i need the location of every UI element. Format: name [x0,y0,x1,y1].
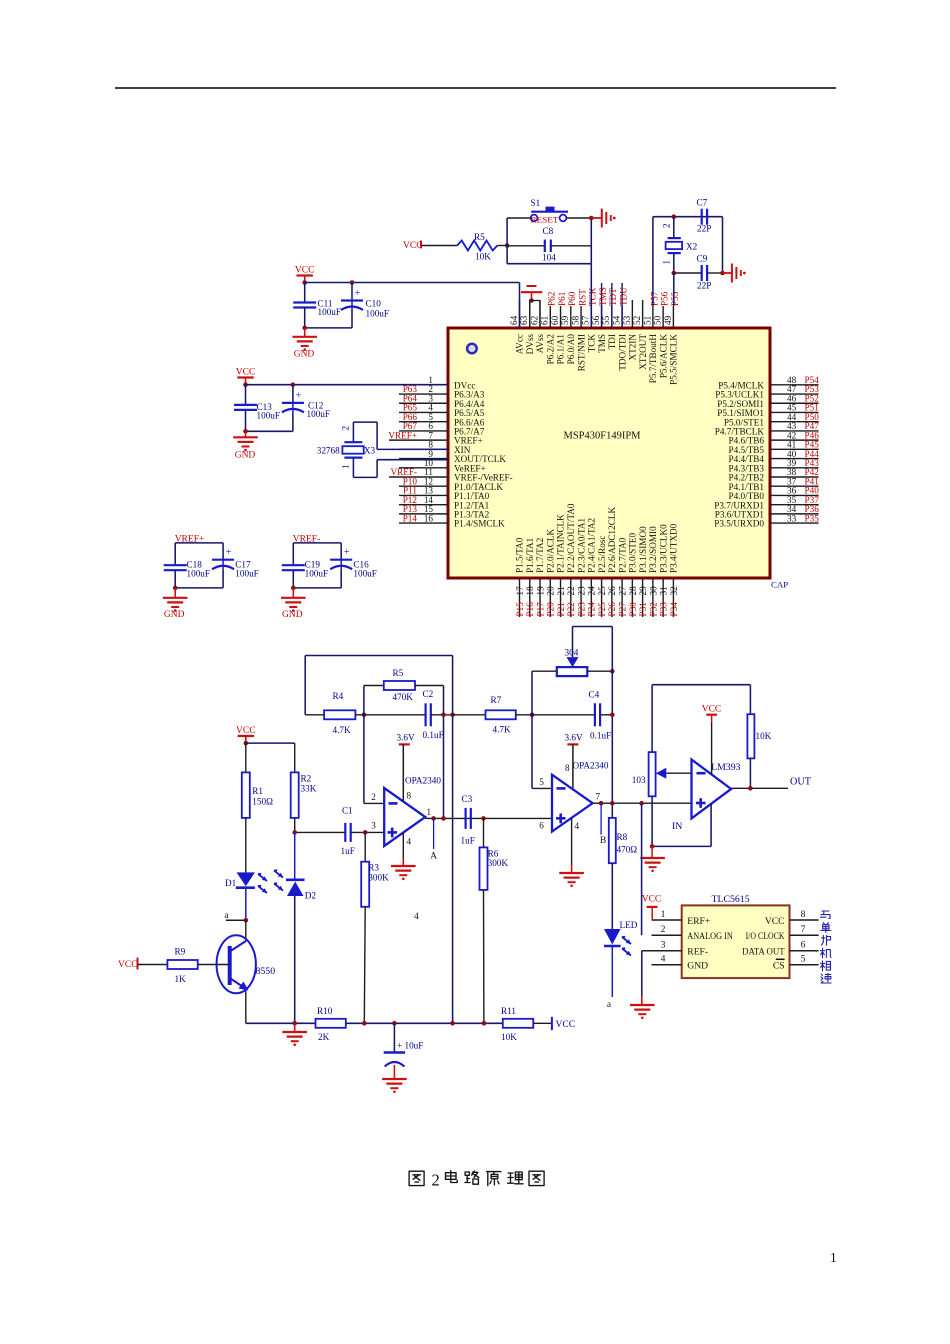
svg-text:DATA OUT: DATA OUT [742,947,785,958]
svg-text:P6.0/A0: P6.0/A0 [566,334,576,365]
svg-text:P3.5/URXD0: P3.5/URXD0 [714,519,764,529]
svg-text:CAP: CAP [771,580,788,590]
svg-text:+: + [226,547,232,558]
svg-text:DVss: DVss [525,334,535,355]
svg-text:P35: P35 [805,513,820,523]
svg-text:0.1uF: 0.1uF [590,731,611,741]
svg-text:P23: P23 [576,602,586,617]
svg-text:VCC: VCC [403,241,423,251]
svg-text:100uF: 100uF [187,569,211,579]
svg-text:P26: P26 [607,602,617,617]
svg-text:100uF: 100uF [305,569,329,579]
svg-text:P1.6/TA1: P1.6/TA1 [525,537,535,573]
svg-text:P20: P20 [546,602,556,617]
svg-text:P3.2/SOMI0: P3.2/SOMI0 [648,526,658,573]
svg-text:30: 30 [648,586,658,596]
svg-text:20: 20 [546,586,556,596]
svg-text:+ 10uF: + 10uF [397,1041,423,1051]
svg-text:100uF: 100uF [307,409,331,419]
svg-text:TMS: TMS [598,287,608,306]
svg-text:54: 54 [612,315,622,325]
svg-text:2: 2 [662,223,672,228]
svg-text:57: 57 [581,315,591,325]
svg-text:8: 8 [565,763,570,773]
svg-text:10K: 10K [756,731,772,741]
svg-text:P15: P15 [515,602,525,617]
svg-text:P5.5/SMCLK: P5.5/SMCLK [669,334,679,385]
svg-text:LED: LED [620,920,638,930]
svg-text:P55: P55 [670,291,680,306]
svg-text:LM393: LM393 [711,762,740,773]
svg-text:R11: R11 [501,1006,516,1016]
svg-text:31: 31 [659,586,669,596]
svg-text:33K: 33K [301,784,317,794]
svg-text:P34: P34 [669,602,679,617]
svg-text:16: 16 [424,513,434,523]
svg-text:P16: P16 [525,602,535,617]
svg-text:P1.5/TA0: P1.5/TA0 [515,537,525,573]
svg-text:P57: P57 [649,291,659,306]
svg-text:51: 51 [642,315,652,325]
svg-text:21: 21 [556,586,566,596]
svg-text:OPA2340: OPA2340 [573,760,609,770]
svg-text:P2.1/TAINCLK: P2.1/TAINCLK [556,514,566,573]
svg-text:27: 27 [618,586,628,596]
svg-text:P32: P32 [648,602,658,617]
svg-text:TDI: TDI [607,334,617,349]
svg-text:P31: P31 [638,602,648,617]
svg-text:470K: 470K [393,692,414,702]
svg-text:AVcc: AVcc [515,334,525,354]
svg-text:D1: D1 [225,878,237,888]
svg-text:TDU: TDU [619,287,629,306]
svg-text:1: 1 [341,464,351,469]
svg-text:OUT: OUT [790,777,812,788]
svg-text:1: 1 [662,260,672,265]
svg-text:P5.7/TBoutH: P5.7/TBoutH [648,334,658,384]
svg-text:50: 50 [653,315,663,325]
svg-text:GND: GND [687,961,708,972]
svg-text:1: 1 [427,807,432,817]
svg-text:P2.4/CA1/TA2: P2.4/CA1/TA2 [587,517,597,573]
svg-text:RESET: RESET [531,215,559,224]
svg-text:P6.1/A1: P6.1/A1 [556,334,566,365]
svg-text:P3.1/SIMO0: P3.1/SIMO0 [638,526,648,573]
svg-text:18: 18 [525,586,535,596]
svg-text:304: 304 [565,647,579,657]
svg-text:GND: GND [235,451,256,461]
svg-text:P2.5/Rosc: P2.5/Rosc [597,535,607,573]
svg-text:C9: C9 [697,254,708,264]
svg-text:AVss: AVss [535,334,545,354]
svg-text:2: 2 [371,792,376,802]
svg-text:17: 17 [515,586,525,596]
svg-text:R6: R6 [488,849,499,859]
svg-text:P17: P17 [535,602,545,617]
svg-text:49: 49 [663,315,673,325]
svg-text:P3.0/STE0: P3.0/STE0 [628,533,638,573]
svg-text:P2.0/ACLK: P2.0/ACLK [545,528,555,573]
svg-text:4: 4 [407,837,412,847]
svg-text:TLC5615: TLC5615 [712,894,750,905]
svg-text:X3: X3 [364,445,376,455]
svg-text:P2.7/TA0: P2.7/TA0 [617,537,627,573]
svg-text:4.7K: 4.7K [493,725,511,735]
svg-text:TMS: TMS [597,334,607,353]
svg-text:58: 58 [570,315,580,325]
svg-text:S1: S1 [531,198,541,208]
svg-text:XT2IN: XT2IN [628,334,638,361]
svg-text:P3.3/UCLK0: P3.3/UCLK0 [658,524,668,573]
svg-text:+: + [344,547,350,558]
svg-text:RST/NMI: RST/NMI [576,334,586,371]
svg-text:R3: R3 [368,863,379,873]
svg-text:R10: R10 [317,1006,333,1016]
svg-text:VCC: VCC [236,368,256,378]
svg-text:C7: C7 [697,198,708,208]
svg-text:2: 2 [432,1171,440,1190]
svg-text:P22: P22 [566,602,576,617]
svg-text:26: 26 [607,586,617,596]
svg-text:28: 28 [628,586,638,596]
svg-text:22P: 22P [697,281,711,291]
svg-text:4: 4 [575,821,580,831]
svg-text:10K: 10K [501,1032,517,1042]
svg-text:+: + [355,288,361,299]
svg-text:3: 3 [371,821,376,831]
svg-text:4: 4 [414,912,419,922]
svg-text:19: 19 [535,586,545,596]
svg-text:25: 25 [597,586,607,596]
svg-text:104: 104 [542,253,556,263]
svg-text:7: 7 [596,791,601,801]
svg-text:R5: R5 [474,232,485,242]
svg-text:53: 53 [622,315,632,325]
svg-text:TDT: TDT [608,288,618,306]
svg-text:5: 5 [801,954,806,965]
svg-text:VCC: VCC [118,960,138,970]
svg-text:P1.4/SMCLK: P1.4/SMCLK [454,519,505,529]
svg-text:I/O CLOCK: I/O CLOCK [746,931,785,942]
svg-text:22: 22 [566,586,576,596]
svg-text:P3.4/UTXD0: P3.4/UTXD0 [669,523,679,573]
svg-text:P2.2/CAOUT/TA0: P2.2/CAOUT/TA0 [566,503,576,573]
svg-text:63: 63 [519,315,529,325]
svg-text:100uF: 100uF [318,307,342,317]
svg-text:10K: 10K [475,252,491,262]
svg-text:R7: R7 [491,695,502,705]
svg-text:8550: 8550 [256,966,276,977]
svg-text:P2.3/CA0/TA1: P2.3/CA0/TA1 [576,517,586,573]
svg-text:5: 5 [539,777,544,787]
svg-text:1uF: 1uF [461,836,475,846]
svg-text:P60: P60 [567,291,577,306]
svg-text:100uF: 100uF [235,569,258,579]
svg-text:3: 3 [661,940,666,951]
svg-text:56: 56 [591,315,601,325]
svg-text:103: 103 [632,775,646,785]
svg-text:IN: IN [672,821,682,832]
svg-text:P62: P62 [547,291,557,306]
svg-text:300K: 300K [488,858,509,868]
svg-text:P30: P30 [628,602,638,617]
svg-text:ERF+: ERF+ [687,916,710,927]
svg-text:P61: P61 [557,291,567,306]
svg-text:1uF: 1uF [341,846,355,856]
svg-text:P56: P56 [660,291,670,306]
svg-text:300K: 300K [368,873,389,883]
svg-text:+: + [296,390,302,401]
svg-text:VREF+: VREF+ [388,430,417,440]
svg-text:2K: 2K [318,1032,330,1042]
svg-text:C8: C8 [543,226,554,236]
svg-text:P25: P25 [597,602,607,617]
svg-text:REF-: REF- [687,947,708,958]
svg-text:R9: R9 [175,947,186,957]
svg-text:TDO/TDI: TDO/TDI [617,334,627,371]
svg-text:RST: RST [577,289,587,306]
svg-text:D2: D2 [305,891,317,901]
svg-text:8: 8 [407,791,412,801]
svg-text:100uF: 100uF [257,410,281,420]
svg-text:32768: 32768 [317,446,340,456]
svg-text:470Ω: 470Ω [617,845,638,855]
svg-text:P27: P27 [618,602,628,617]
svg-text:6: 6 [539,821,544,831]
svg-text:OPA2340: OPA2340 [405,776,441,786]
svg-text:1: 1 [830,1250,837,1265]
svg-text:ANALOG IN: ANALOG IN [687,931,733,942]
svg-text:29: 29 [638,586,648,596]
svg-text:MSP430F149IPM: MSP430F149IPM [563,431,641,442]
svg-text:62: 62 [529,315,539,325]
svg-text:P24: P24 [587,602,597,617]
svg-text:TCK: TCK [587,334,597,353]
svg-text:GND: GND [294,350,315,360]
svg-text:P21: P21 [556,602,566,617]
svg-text:VCC: VCC [702,705,722,715]
svg-text:P14: P14 [403,513,418,523]
svg-text:24: 24 [587,586,597,596]
svg-text:52: 52 [632,315,642,325]
svg-text:XT2OUT: XT2OUT [638,334,648,370]
svg-text:P5.6/ACLK: P5.6/ACLK [658,334,668,379]
svg-text:VCC: VCC [642,895,662,905]
svg-text:B: B [600,836,606,846]
svg-text:GND: GND [164,610,185,620]
svg-text:4: 4 [661,954,666,965]
svg-text:CS: CS [773,961,785,972]
svg-text:R1: R1 [252,786,263,796]
svg-text:X2: X2 [686,241,698,251]
svg-text:TCK: TCK [588,287,598,306]
svg-text:1: 1 [661,909,666,920]
svg-text:33: 33 [787,513,797,523]
svg-text:C4: C4 [589,690,600,700]
svg-text:3.6V: 3.6V [565,733,583,743]
svg-text:60: 60 [550,315,560,325]
svg-text:100uF: 100uF [353,569,377,579]
svg-text:0.1uF: 0.1uF [423,730,444,740]
svg-text:61: 61 [540,315,550,325]
svg-text:2: 2 [661,924,666,935]
svg-text:C2: C2 [423,689,434,699]
svg-text:R4: R4 [333,691,344,701]
svg-text:59: 59 [560,315,570,325]
svg-text:4.7K: 4.7K [333,725,351,735]
svg-text:2: 2 [341,426,351,431]
svg-text:6: 6 [801,940,806,951]
svg-text:VCC: VCC [556,1020,576,1030]
svg-text:VCC: VCC [765,916,785,927]
svg-text:P1.7/TA2: P1.7/TA2 [535,537,545,573]
svg-text:55: 55 [601,315,611,325]
svg-text:3.6V: 3.6V [397,733,415,743]
svg-text:GND: GND [282,610,303,620]
svg-text:22P: 22P [697,224,711,234]
svg-text:R2: R2 [301,774,312,784]
svg-text:C1: C1 [342,806,353,816]
svg-text:A: A [430,852,437,862]
svg-text:P2.6/ADC12CLK: P2.6/ADC12CLK [607,507,617,573]
svg-text:R5: R5 [393,668,404,678]
svg-text:VCC: VCC [295,266,315,276]
svg-text:23: 23 [576,586,586,596]
svg-text:VCC: VCC [236,726,256,736]
svg-text:R8: R8 [617,832,628,842]
svg-text:32: 32 [669,586,679,596]
svg-text:100uF: 100uF [366,309,390,319]
svg-text:1K: 1K [175,974,187,984]
svg-text:7: 7 [801,924,806,935]
svg-text:C3: C3 [462,794,473,804]
svg-text:8: 8 [801,909,806,920]
svg-text:64: 64 [509,315,519,325]
svg-text:C10: C10 [366,299,382,309]
svg-text:P6.2/A2: P6.2/A2 [545,334,555,365]
svg-text:150Ω: 150Ω [252,797,273,807]
svg-text:P33: P33 [659,602,669,617]
